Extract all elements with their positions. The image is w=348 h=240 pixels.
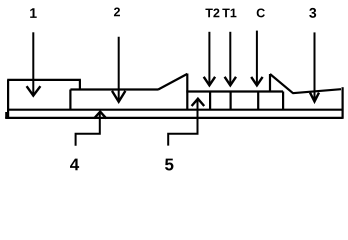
- label 1 arrow: [27, 32, 41, 95]
- label 1 text: [30, 8, 37, 18]
- sample pad top edge: [7, 79, 81, 81]
- backing card bottom line: [5, 117, 342, 119]
- backing card left end notch: [5, 112, 7, 118]
- label 2 text: [114, 7, 120, 16]
- control line C divider: [257, 92, 259, 110]
- sample pad right edge: [79, 80, 81, 90]
- label 4 leader line: [76, 112, 107, 146]
- label C arrow: [251, 31, 262, 86]
- label 3 text: [309, 8, 316, 18]
- membrane right edge: [282, 92, 284, 110]
- label T2 arrow: [204, 32, 215, 86]
- membrane left edge: [186, 74, 188, 110]
- label 4 text: [70, 159, 79, 171]
- label C text: [257, 8, 265, 17]
- absorbent pad flap vertical: [269, 74, 271, 92]
- strip right edge: [342, 87, 344, 119]
- test line T2 divider: [209, 92, 211, 110]
- conjugate pad top edge: [70, 88, 158, 90]
- label T2 text: [205, 8, 219, 17]
- label 5 leader line: [168, 99, 204, 146]
- label 3 arrow: [310, 32, 319, 101]
- label T1 text: [222, 9, 236, 18]
- absorbent pad overlap diagonal: [270, 74, 293, 93]
- membrane overlap diagonal left: [158, 74, 187, 90]
- strip left edge: [7, 80, 9, 119]
- label T1 arrow: [225, 32, 236, 86]
- test line T1 divider: [230, 92, 232, 110]
- membrane top edge: [186, 90, 283, 92]
- backing card top line: [7, 109, 343, 111]
- conjugate pad left edge: [69, 90, 71, 110]
- absorbent pad top edge: [293, 89, 342, 93]
- label 2 arrow: [112, 37, 125, 102]
- label 5 text: [165, 159, 173, 171]
